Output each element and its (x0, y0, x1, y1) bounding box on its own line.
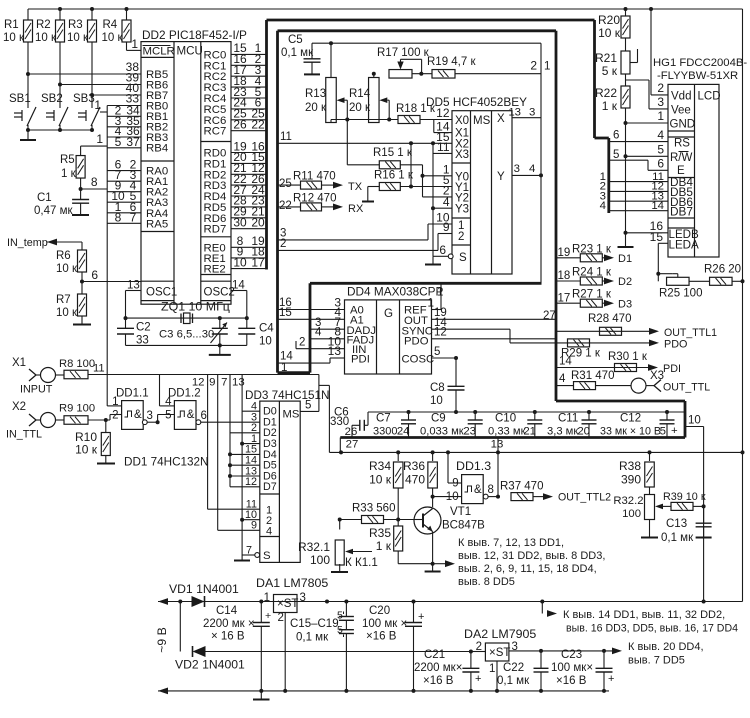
svg-text:10 к: 10 к (369, 473, 392, 487)
wire X2-Y1 vertical (410, 143, 412, 186)
svg-text:30: 30 (233, 216, 247, 230)
wire R18 to X0 (420, 119, 452, 121)
labels DD3 pins 11 10 9 7 (245, 499, 257, 557)
wire R36 to collector (431, 488, 435, 507)
wire RB0 pin33 (107, 92, 141, 106)
svg-text:5: 5 (115, 135, 122, 149)
wire R16 to Y1 (400, 185, 452, 189)
svg-text:X3: X3 (650, 370, 664, 382)
label C1 0,47 мк (34, 192, 73, 217)
svg-text:100 мк ×: 100 мк × (362, 618, 407, 630)
wire OSC1 pin13 (126, 280, 142, 319)
switch SB3 (73, 93, 100, 130)
label C20 100мк 16В (362, 605, 407, 643)
svg-text:14: 14 (559, 356, 572, 368)
svg-text:X3: X3 (455, 149, 469, 161)
svg-text:&: & (474, 484, 482, 496)
label DD5 pin 1 (443, 162, 450, 176)
wire bus row 2|34 (107, 103, 141, 117)
wire LCD RW pin5 (626, 143, 669, 157)
wire analog top rail (312, 41, 541, 45)
wire to DD1.2 pin4 (160, 375, 175, 406)
svg-text:3: 3 (514, 163, 520, 175)
wiper R13 (337, 97, 350, 121)
wire vertical collector x541 (540, 43, 542, 283)
label DD5 pin 4 (443, 195, 450, 209)
svg-text:100 мк×: 100 мк× (551, 662, 593, 674)
wire ground bottom rail (158, 688, 609, 695)
svg-text:3: 3 (300, 592, 306, 604)
svg-text:×16 В: ×16 В (556, 675, 587, 687)
ground bottom rail (253, 691, 270, 700)
svg-text:21: 21 (523, 426, 536, 438)
wire LCD DB5 pin12 (600, 181, 668, 193)
label DD5 pin 15 (436, 130, 450, 144)
wire left bus vertical (106, 106, 108, 375)
svg-text:5: 5 (660, 426, 666, 438)
wiper R32.2 (655, 504, 671, 510)
label DD5 pin 14 (436, 119, 450, 133)
svg-text:C11: C11 (558, 413, 578, 425)
svg-text:2: 2 (280, 238, 286, 250)
svg-text:G: G (384, 307, 393, 320)
svg-text:MS: MS (283, 409, 300, 421)
svg-text:0,033 мк: 0,033 мк (420, 426, 464, 438)
svg-text:D7: D7 (263, 481, 277, 493)
resistor R22 1k (595, 74, 630, 113)
svg-text:4: 4 (315, 327, 322, 339)
svg-text:R20: R20 (598, 13, 620, 27)
wire R22 bottom vertical (624, 108, 628, 247)
wire LCD E pin6 (609, 149, 668, 171)
svg-text:12: 12 (434, 327, 447, 339)
svg-text:C14: C14 (216, 605, 238, 617)
label DD3 pin 1 (251, 433, 257, 445)
wire R5 to MCLR bus (81, 132, 108, 146)
svg-text:S: S (459, 252, 467, 264)
svg-text:C20: C20 (369, 605, 390, 617)
wire R2 to SB2 (59, 42, 61, 105)
wire DD2 pin17 to bus tap 3 (231, 63, 267, 77)
wire LCD LEDB pin16 (626, 219, 669, 233)
resistor R10 10k (75, 420, 110, 457)
svg-text:0,1 мк: 0,1 мк (296, 632, 329, 644)
svg-text:33 мк × 10 В: 33 мк × 10 В (600, 426, 661, 438)
capacitor C20 (405, 602, 424, 691)
svg-text:SB2: SB2 (41, 93, 63, 105)
svg-text:PDI: PDI (351, 353, 370, 365)
svg-text:C15–C19: C15–C19 (290, 618, 339, 630)
wiper R32.1 to K1.1 (345, 549, 378, 569)
wire R3 to SB3 (91, 42, 93, 105)
wire DD2 pin19 to bus tap 16 (231, 139, 267, 153)
potentiometer R25 100 (659, 277, 702, 299)
resistor R27 and D3 arrow (580, 298, 632, 310)
shield outer right segment at LCD (595, 20, 609, 213)
svg-text:11: 11 (93, 363, 105, 375)
capacitor C12 33мк (600, 412, 678, 438)
svg-text:&: & (187, 409, 195, 421)
svg-text:D1: D1 (618, 253, 632, 265)
label DD5 pin 5 (443, 173, 450, 187)
svg-text:0,33 мк: 0,33 мк (488, 426, 526, 438)
wire LCD DB7 pin14 (600, 200, 668, 212)
svg-text:MCU: MCU (177, 45, 203, 58)
label C6 330 (330, 407, 349, 428)
svg-text:R9 100: R9 100 (59, 403, 95, 415)
label DD1.2 (168, 388, 201, 400)
svg-text:10 к: 10 к (3, 32, 25, 44)
wire LCD RS pin4 (609, 128, 668, 142)
label DD3 pin 3 (251, 411, 257, 423)
svg-text:X2: X2 (12, 401, 26, 413)
label R32.1 100 (298, 540, 330, 567)
wire RB5 pin38 (28, 60, 141, 74)
nodes on positive rail (178, 600, 705, 604)
IC DD4 MAX038CPP outline (345, 300, 432, 374)
svg-text:R/W: R/W (670, 152, 693, 164)
ground C1 (72, 203, 89, 215)
switch SB1 (9, 93, 36, 130)
note text K vyv 14 DD1 (563, 609, 738, 635)
svg-text:0,1 мк: 0,1 мк (661, 532, 694, 544)
svg-text:R32.1: R32.1 (298, 540, 330, 554)
wire DD4 A0 pin3 (278, 295, 345, 309)
svg-text:4: 4 (529, 163, 535, 175)
svg-text:Vdd: Vdd (671, 91, 691, 103)
svg-text:RB4: RB4 (146, 143, 168, 155)
svg-text:10 к: 10 к (35, 32, 57, 44)
wire DD2 pin8 to bus tap 19 (231, 234, 267, 248)
svg-text:R39 10 к: R39 10 к (663, 491, 706, 503)
svg-text:8: 8 (488, 484, 494, 496)
switch SB2 (41, 93, 68, 130)
wire DD1.3 pin9 (448, 452, 462, 483)
svg-text:C12: C12 (620, 413, 641, 425)
svg-text:~9 В: ~9 В (155, 627, 169, 652)
svg-text:R21: R21 (595, 51, 617, 65)
wire PDI row (556, 351, 648, 368)
wire Y0 (423, 175, 453, 177)
capacitor C13 and ground (696, 506, 712, 537)
svg-text:1: 1 (264, 592, 270, 604)
svg-text:9: 9 (443, 220, 450, 234)
label DA2 LM7905 (464, 627, 536, 641)
capacitor C2 33 (117, 318, 151, 346)
svg-text:RS: RS (674, 138, 690, 150)
svg-text:X: X (497, 113, 505, 125)
resistor R9 body (64, 416, 110, 425)
label DD1.1 (116, 388, 149, 400)
svg-text:VT1: VT1 (450, 506, 471, 518)
label R24 1 к (572, 267, 612, 279)
svg-text:RA5: RA5 (146, 218, 168, 230)
svg-text:R8 100: R8 100 (59, 358, 95, 370)
wire DD3 S pin7 ground (234, 553, 260, 561)
wire R20 to R21 (625, 38, 627, 51)
svg-text:PDI: PDI (663, 363, 681, 375)
svg-text:11: 11 (280, 131, 292, 143)
label VT1 BC847B (442, 506, 485, 532)
labels LCD pins (669, 91, 721, 252)
IC DD3 74HC151N outline (260, 401, 300, 562)
wire DD2 pin28 to bus tap 23 (231, 194, 267, 208)
label R2 10 к (35, 19, 57, 44)
svg-text:VD2 1N4001: VD2 1N4001 (175, 658, 245, 672)
svg-text:RX: RX (348, 203, 364, 215)
svg-text:DD2 PIC18F452-I/P: DD2 PIC18F452-I/P (142, 28, 247, 42)
label R19 4,7 к (427, 56, 476, 68)
svg-text:R33 560: R33 560 (352, 503, 395, 515)
wire DD3 out pin5 riser (281, 362, 329, 452)
label MCLR MCU (143, 45, 203, 58)
wire LCD DB4 pin11 (600, 171, 668, 183)
wire DD1.1 out pin3 (142, 410, 159, 425)
label R4 10 к (102, 19, 124, 44)
svg-text:S: S (263, 550, 271, 562)
svg-text:18: 18 (558, 270, 571, 282)
wire DD4 OUT pin19 (432, 307, 557, 319)
label C21 2200мк (414, 649, 462, 687)
wire R17 wiper junction (412, 72, 432, 76)
svg-text:RE2: RE2 (204, 264, 226, 276)
wire DD5 X out 13|3 (508, 106, 541, 118)
wire mid ground rail (329, 451, 742, 453)
label R27 1 к (572, 289, 612, 301)
capacitor C8 10 (430, 358, 465, 412)
svg-text:11: 11 (437, 140, 450, 154)
svg-text:10: 10 (688, 415, 701, 427)
capacitor C5 and ground (304, 43, 321, 74)
svg-text:C13: C13 (666, 518, 687, 530)
label C3 (159, 329, 214, 341)
wire to X2 tap 11 (278, 131, 453, 146)
wire bus row 1|6 (107, 200, 141, 214)
svg-text:×16 В: ×16 В (423, 675, 454, 687)
svg-text:33: 33 (136, 335, 149, 347)
svg-text:17: 17 (558, 292, 571, 304)
svg-text:5: 5 (657, 143, 664, 157)
svg-text:1: 1 (281, 362, 287, 374)
resistor R29 and PDO (561, 339, 687, 360)
resistor R16 body and stub ground (362, 183, 400, 202)
wire DD2 pin25 to bus tap 25 (231, 107, 267, 121)
svg-text:DB7: DB7 (670, 204, 693, 218)
svg-text:4: 4 (657, 128, 664, 142)
svg-text:Y3: Y3 (455, 204, 469, 216)
svg-text:10 к: 10 к (598, 26, 621, 40)
svg-text:C10: C10 (495, 413, 516, 425)
node junctions on top rail (58, 7, 653, 11)
svg-text:10: 10 (259, 336, 272, 348)
svg-text:2: 2 (458, 231, 464, 243)
label R11 470 (293, 171, 336, 183)
label DD1.3 (456, 459, 491, 473)
svg-text:OSC1: OSC1 (146, 286, 177, 298)
svg-text:VD1 1N4001: VD1 1N4001 (169, 582, 239, 596)
connector X1 INPUT (12, 357, 64, 396)
wire DD2 pin26 to bus tap 22 (231, 118, 267, 132)
svg-text:R36: R36 (403, 459, 425, 473)
svg-text:выв. 2, 6, 9, 11, 15, 18 DD4,: выв. 2, 6, 9, 11, 15, 18 DD4, (458, 563, 597, 575)
wire LEDA down (657, 243, 659, 281)
wire DD2 pin27 to bus tap 24 (231, 183, 267, 197)
labels DD4 pins inside (347, 305, 435, 366)
svg-text:TX: TX (348, 181, 363, 193)
svg-text:20: 20 (577, 426, 590, 438)
svg-text:R7: R7 (56, 294, 71, 306)
label R18 1 к (396, 103, 436, 115)
svg-text:R32.2: R32.2 (613, 495, 643, 507)
svg-text:37: 37 (126, 135, 140, 149)
label DD5 pin 2 (443, 184, 450, 198)
wire to VD2 (179, 602, 181, 652)
svg-text:1: 1 (657, 109, 664, 123)
resistor R1 10k body (24, 9, 33, 42)
svg-text:R17 100 к: R17 100 к (377, 47, 430, 59)
svg-text:R31 470: R31 470 (571, 370, 614, 382)
svg-text:10: 10 (233, 255, 247, 269)
ground LCD (618, 246, 634, 248)
svg-text:15: 15 (650, 230, 664, 244)
svg-text:R19 4,7 к: R19 4,7 к (427, 56, 476, 68)
resistor R11 and TX arrow (301, 181, 363, 193)
svg-text:14: 14 (651, 200, 664, 212)
svg-text:13: 13 (127, 280, 140, 292)
nodes on bottom rail (259, 689, 606, 693)
gate DD1.2 (165, 396, 196, 430)
svg-text:R13: R13 (305, 88, 326, 100)
svg-text:1: 1 (437, 286, 443, 298)
potentiometer R13 20k (305, 43, 336, 122)
label R9 100 (59, 403, 95, 415)
connector X2 IN_TTL (6, 401, 64, 441)
label C14 2200мк 16В (203, 605, 255, 643)
svg-text:3: 3 (657, 95, 664, 109)
wire OUT_TTL1 row (543, 310, 649, 331)
svg-text:К выв. 14 DD1, выв. 11, 32 DD2: К выв. 14 DD1, выв. 11, 32 DD2, (563, 609, 725, 621)
wire bus row 3|35 (107, 114, 141, 128)
wire DD1.3 out pin8 (483, 484, 500, 499)
resistor R4 10k body (122, 9, 131, 42)
diode VD2 1N4001 (175, 646, 471, 672)
svg-text:SB3: SB3 (73, 93, 95, 105)
svg-text:C21: C21 (424, 649, 445, 661)
resistor R35 1k (369, 520, 403, 554)
svg-text:14: 14 (280, 351, 293, 363)
resistor R37 and OUT_TTL2 (511, 492, 611, 504)
svg-text:×ST: ×ST (489, 647, 510, 659)
label R33 560 (352, 503, 395, 515)
svg-text:+: + (418, 611, 424, 623)
svg-text:INPUT: INPUT (20, 384, 53, 396)
svg-text:1: 1 (94, 98, 101, 112)
label DD5 pin 11 (437, 140, 450, 154)
wires D2 D4 D5 D6 (230, 433, 260, 476)
svg-text:×ST: ×ST (277, 598, 298, 610)
wire DD1.3 pin10 (433, 496, 462, 498)
svg-text:10 к: 10 к (75, 443, 98, 457)
svg-text:6: 6 (613, 130, 619, 142)
capacitor C1 (72, 200, 89, 204)
svg-text:0,1 мк: 0,1 мк (281, 47, 314, 59)
svg-text:К выв. 20 DD4,: К выв. 20 DD4, (628, 641, 704, 653)
svg-text:22: 22 (279, 200, 292, 212)
resistor R24 and D2 arrow (580, 276, 632, 288)
wire input to DD1.1 pin1 (107, 375, 121, 406)
svg-text:0,1 мк: 0,1 мк (497, 675, 530, 687)
labels DD5 pins inside (455, 113, 505, 264)
svg-text:20: 20 (251, 216, 265, 230)
label DD3 pin 4 (251, 401, 257, 413)
svg-text:C8: C8 (430, 382, 445, 394)
svg-text:&: & (134, 409, 142, 421)
label R26 20 (704, 264, 741, 276)
svg-text:24: 24 (397, 426, 410, 438)
svg-text:R28 470: R28 470 (588, 313, 631, 325)
resistor R34 10k (369, 452, 403, 488)
svg-text:C2: C2 (136, 322, 151, 334)
svg-text:470: 470 (405, 473, 425, 487)
label DD2 PIC18F452-I/P (142, 28, 247, 42)
svg-text:+: + (265, 610, 271, 622)
svg-text:PDO: PDO (664, 339, 687, 351)
wire DD2 pin23 to bus tap 5 (231, 85, 267, 99)
wire +5V tap arrow (542, 602, 557, 617)
label R16 1 к (374, 170, 414, 182)
resistor R5 body (76, 146, 85, 199)
svg-text:10 к: 10 к (56, 263, 78, 275)
svg-text:R14: R14 (349, 88, 371, 100)
svg-text:13: 13 (232, 377, 245, 389)
arrow -5V out (612, 648, 622, 655)
svg-text:C1: C1 (37, 192, 52, 204)
svg-text:MCLR: MCLR (143, 46, 175, 58)
svg-text:R2: R2 (36, 19, 51, 31)
wire MCLR pin1 from R4 (127, 37, 142, 51)
svg-text:BC847B: BC847B (442, 520, 485, 532)
svg-text:2: 2 (657, 81, 664, 95)
wire IN_temp input arrow (7, 237, 82, 249)
svg-text:C23: C23 (561, 649, 582, 661)
svg-text:10 к: 10 к (67, 32, 89, 44)
svg-text:IN_TTL: IN_TTL (6, 429, 42, 441)
svg-text:OSC2: OSC2 (204, 286, 235, 298)
wire DD4 COSC pin5 (432, 346, 459, 360)
svg-text:D2: D2 (618, 276, 632, 288)
wire tap7 vertical to D7 (228, 375, 260, 487)
wire cap row top rail (368, 412, 685, 425)
label DD3 74HC151N (245, 389, 329, 402)
wire DD2 pin20 to bus tap 15 (231, 150, 267, 164)
svg-text:2: 2 (530, 59, 537, 73)
IC DD5 HCF4052BEY outline (452, 111, 512, 274)
resistor R26 body (710, 277, 745, 285)
label DD5 HCF4052BEY (426, 95, 527, 109)
svg-text:ZQ1 10 МГц: ZQ1 10 МГц (161, 300, 230, 314)
svg-text:-FLYYBW-51XR: -FLYYBW-51XR (657, 70, 738, 82)
wire +V top rail and right edge down to bottom rail (28, 9, 743, 602)
svg-text:К К1.1: К К1.1 (345, 556, 378, 569)
svg-text:2: 2 (278, 612, 284, 624)
wire R34 to base node (397, 488, 399, 520)
wire bus row 7|3 (107, 168, 141, 182)
svg-text:DA2 LM7905: DA2 LM7905 (464, 627, 536, 641)
svg-text:R38: R38 (619, 459, 641, 473)
resistor R31 body (574, 378, 656, 393)
svg-text:GND: GND (670, 119, 696, 131)
svg-text:HG1 FDCC2004B-: HG1 FDCC2004B- (653, 57, 747, 69)
